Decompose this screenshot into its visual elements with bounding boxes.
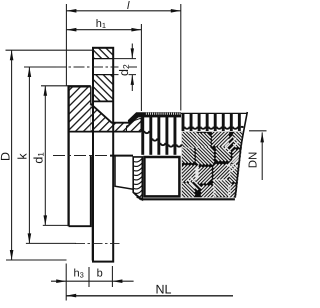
- svg-text:D: D: [0, 152, 13, 161]
- collar with stripes (bottom view): [133, 157, 142, 200]
- h1 arrows: [66, 28, 76, 32]
- b arrow (outside, pointing left): [112, 279, 122, 283]
- l extension right: [180, 4, 182, 111]
- l extension left / h1 shared: [65, 4, 67, 86]
- slot bottoms right (over hose): [184, 127, 243, 129]
- seam line between stub and flange, bottom half: [91, 157, 93, 261]
- l dimension line: [66, 10, 180, 12]
- hose torn right edge: [235, 112, 247, 198]
- D dimension: [11, 50, 13, 260]
- comb band ticks: [146, 113, 180, 115]
- svg-text:k: k: [16, 153, 30, 160]
- comb band (nozzle wall section): [128, 112, 181, 125]
- d2 dimension vertical + ext lines: [131, 44, 133, 59]
- DN arrow up: [260, 132, 264, 142]
- h1 dimension line: [66, 29, 141, 31]
- U-band bars over hose: [182, 113, 241, 131]
- d1 dimension: [44, 86, 46, 226]
- k arrows: [28, 67, 32, 77]
- d2 arrows (outside): [131, 48, 134, 58]
- thin hose top line right of nozzle tip: [181, 112, 247, 114]
- flange outline: [93, 48, 113, 262]
- h3 arrow (outside, pointing right): [56, 279, 66, 283]
- svg-text:b: b: [97, 267, 103, 279]
- bolt hole edges: [93, 59, 113, 75]
- main axis centerline: [53, 155, 132, 157]
- label d2 backing: [119, 60, 129, 77]
- NL dimension: [66, 295, 233, 297]
- bolt hole centerline bottom: [75, 242, 120, 244]
- arrows: [10, 9, 264, 297]
- cone outer edge: [90, 103, 136, 122]
- slot bottoms (U arcs) left: [144, 131, 181, 147]
- bottom view neck step outline: [115, 157, 133, 190]
- stub flare outline: [69, 86, 91, 226]
- D arrows: [10, 50, 14, 60]
- d1 arrows: [44, 86, 48, 96]
- l arrows: [66, 9, 76, 13]
- hose bottom edge: [141, 198, 235, 200]
- svg-text:DN: DN: [248, 152, 260, 169]
- nozzle wall wedge left of bars: [127, 118, 142, 131]
- white hose rect in bottom view: [144, 157, 179, 196]
- h3 / b dimensions: [65, 264, 67, 301]
- svg-text:NL: NL: [156, 283, 172, 297]
- bottom edge of flange hatch (flange bore): [93, 100, 113, 102]
- bolt hole centerline top: [55, 66, 137, 68]
- stub flare (Boerdel) section hatch top half: [68, 86, 91, 131]
- U-band bars left of nozzle tip: [141, 117, 176, 155]
- flange column section top half: [93, 48, 113, 59]
- k dimension: [28, 67, 30, 243]
- NL arrow left: [66, 294, 76, 298]
- bore top line: [68, 131, 141, 133]
- nozzle cone section hatch top half: [90, 103, 141, 131]
- DN dimension: [261, 132, 263, 180]
- h1 extension right: [140, 24, 142, 111]
